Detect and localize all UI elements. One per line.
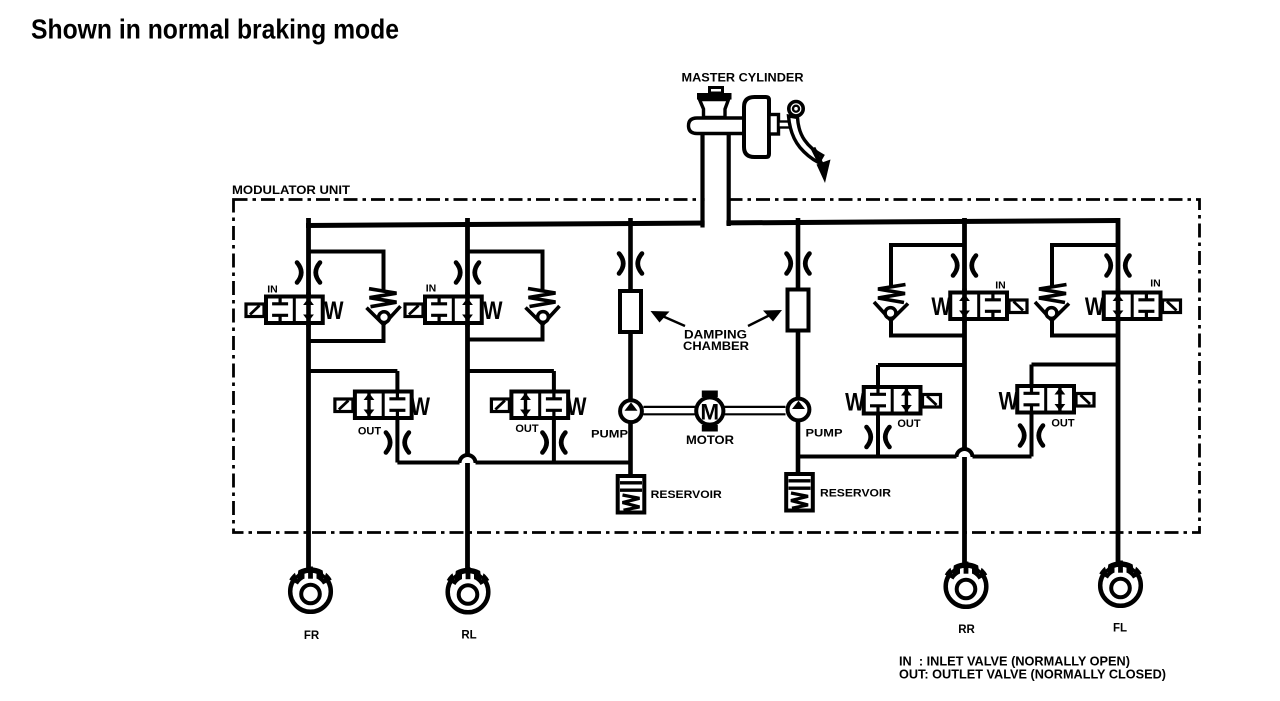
- grommet on RL branch: [456, 263, 479, 283]
- wire: FL branch: [1116, 218, 1121, 572]
- damping chamber left: [620, 291, 641, 332]
- wire: OUT FL feed: [1032, 365, 1119, 457]
- wire: OUT RR feed: [878, 365, 965, 457]
- master cylinder pipe (double wall): [705, 188, 727, 229]
- svg-text:FL: FL: [1113, 623, 1127, 635]
- inlet valve IN RL: [405, 293, 482, 327]
- relief valve FL: [1035, 285, 1069, 321]
- wire hop over RR branch: [957, 449, 973, 457]
- svg-text:MOTOR: MOTOR: [686, 435, 735, 447]
- grommet below valve OUT FR: [386, 433, 409, 453]
- relief bypass loop FL: [1052, 245, 1117, 336]
- svg-text:W: W: [324, 297, 344, 325]
- relief bypass loop FR: [310, 252, 384, 342]
- damping chamber right: [788, 290, 809, 331]
- svg-text:W: W: [845, 389, 865, 417]
- outlet valve OUT FR: [335, 392, 412, 419]
- pedal stroke arrow: [813, 148, 822, 166]
- wire: OUT RL feed: [468, 371, 554, 463]
- pump left: [620, 400, 642, 422]
- wire: OUT FR feed: [309, 371, 398, 463]
- svg-text:IN: IN: [1150, 278, 1161, 290]
- svg-text:DAMPING: DAMPING: [684, 330, 747, 342]
- reservoir right: [786, 474, 813, 511]
- inlet valve IN FL: [1104, 289, 1181, 323]
- wheel RR: [946, 562, 987, 607]
- svg-text:M: M: [700, 399, 719, 424]
- arrow to right damping chamber: [748, 314, 772, 326]
- grommet below valve OUT RR: [867, 427, 890, 447]
- inlet valve IN FR: [246, 293, 323, 327]
- svg-text:RESERVOIR: RESERVOIR: [651, 489, 722, 501]
- svg-text:RL: RL: [461, 630, 476, 642]
- booster output boss: [769, 115, 779, 135]
- svg-text:OUT: OUT: [897, 418, 921, 430]
- svg-text:IN: IN: [426, 283, 437, 295]
- wire: RR branch: [962, 218, 967, 573]
- relief valve RR: [874, 285, 908, 321]
- wire hop over RL branch: [460, 455, 476, 463]
- svg-text:CHAMBER: CHAMBER: [683, 341, 750, 353]
- grommet on right pump column: [787, 254, 810, 274]
- brake booster: [744, 97, 769, 157]
- relief valve RL: [526, 289, 560, 325]
- svg-text:W: W: [1085, 293, 1105, 321]
- grommet below valve OUT FL: [1020, 426, 1043, 446]
- svg-text:MASTER CYLINDER: MASTER CYLINDER: [682, 73, 805, 85]
- push rod: [779, 122, 795, 128]
- svg-text:W: W: [567, 393, 587, 421]
- wheel FR: [290, 567, 331, 612]
- svg-text:OUT: OUT: [515, 423, 539, 435]
- svg-text:IN: IN: [267, 284, 278, 296]
- svg-text:IN : INLET VALVE (NORMALLY OP: IN : INLET VALVE (NORMALLY OPEN): [899, 655, 1130, 669]
- svg-text:RESERVOIR: RESERVOIR: [820, 488, 891, 500]
- grommet on RR branch: [953, 256, 976, 276]
- main supply bus from master cylinder: [306, 221, 1118, 226]
- svg-text:MODULATOR UNIT: MODULATOR UNIT: [232, 185, 350, 197]
- wire: FR branch: [306, 218, 311, 578]
- svg-text:PUMP: PUMP: [806, 428, 843, 440]
- grommet on FL branch: [1107, 256, 1130, 276]
- svg-text:PUMP: PUMP: [591, 429, 628, 441]
- relief bypass loop RR: [891, 245, 963, 336]
- svg-text:OUT: OUTLET VALVE (NORMALLY CL: OUT: OUTLET VALVE (NORMALLY CLOSED): [899, 668, 1166, 682]
- grommet below valve OUT RL: [542, 433, 565, 453]
- wire: left pump column: [628, 218, 633, 474]
- modulator unit dashed boundary box: [234, 200, 1200, 533]
- wire: RL branch: [465, 218, 470, 579]
- outlet valve OUT RL: [491, 392, 568, 419]
- svg-text:IN: IN: [995, 280, 1006, 292]
- inlet valve IN RR: [950, 289, 1027, 323]
- brake pedal arm: [789, 116, 823, 163]
- relief bypass loop RL: [469, 252, 543, 340]
- svg-text:W: W: [483, 297, 503, 325]
- master cylinder reservoir body: [700, 100, 729, 118]
- wire: right pump column: [796, 218, 801, 472]
- svg-text:RR: RR: [958, 624, 975, 636]
- svg-text:W: W: [999, 388, 1019, 416]
- svg-text:W: W: [411, 393, 431, 421]
- wheel RL: [448, 567, 489, 612]
- master cylinder reservoir cap: [710, 88, 723, 94]
- arrow to left damping chamber: [660, 315, 685, 326]
- svg-text:W: W: [931, 293, 951, 321]
- svg-text:Shown in normal braking mode: Shown in normal braking mode: [31, 14, 399, 45]
- grommet on left pump column: [619, 254, 642, 274]
- svg-text:FR: FR: [304, 630, 320, 642]
- outlet valve OUT FL: [1017, 386, 1094, 413]
- pump right: [788, 399, 810, 421]
- brake pedal pivot: [789, 102, 803, 116]
- svg-text:OUT: OUT: [358, 426, 382, 438]
- outlet valve OUT RR: [864, 387, 941, 414]
- wheel FL: [1100, 561, 1141, 606]
- motor M1: [696, 391, 723, 432]
- master cylinder barrel: [689, 118, 746, 134]
- wire: left return line: [397, 461, 630, 465]
- wire: right return line: [798, 455, 1032, 459]
- svg-text:OUT: OUT: [1051, 418, 1075, 430]
- relief valve FR: [367, 289, 401, 325]
- reservoir left: [618, 476, 645, 513]
- motor shaft: [644, 407, 786, 414]
- grommet on FR branch: [297, 263, 320, 283]
